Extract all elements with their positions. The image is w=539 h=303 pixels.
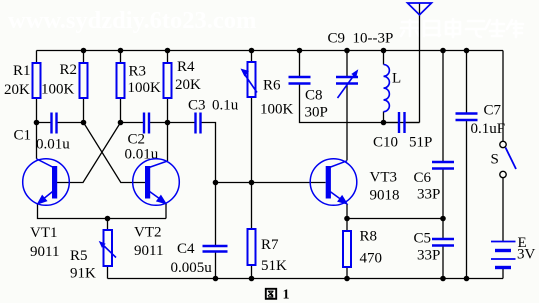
resistor R1 xyxy=(33,63,41,98)
capacitor C5 xyxy=(432,239,454,246)
wire: VT1 emitter drop and emitter rail xyxy=(38,204,167,219)
capacitor C6 xyxy=(432,162,454,169)
wire: top supply rail xyxy=(37,50,504,52)
wire: R4 drop to VT2 collector xyxy=(167,51,169,162)
svg-text:C4: C4 xyxy=(177,241,195,257)
capacitor C4 xyxy=(203,246,228,252)
wire: R7 branch xyxy=(251,183,253,279)
wire: C2 row xyxy=(121,122,168,124)
inductor L xyxy=(384,65,390,112)
svg-text:20K: 20K xyxy=(4,82,30,98)
antenna xyxy=(408,3,432,15)
junction dots top rail xyxy=(81,48,470,54)
resistor R3 xyxy=(117,63,125,98)
svg-text:91K: 91K xyxy=(70,266,96,282)
wire: node A to VT3 base xyxy=(216,182,326,184)
svg-text:100K: 100K xyxy=(41,82,75,98)
svg-text:100K: 100K xyxy=(260,102,294,118)
wire: C3 row and drop to node A xyxy=(168,123,216,183)
svg-text:0.1u: 0.1u xyxy=(212,98,239,114)
wire: C6 branch xyxy=(442,51,444,219)
wire: switch-battery branch xyxy=(502,51,504,279)
wire: VT2 emitter drop xyxy=(165,203,167,219)
resistor R4 xyxy=(164,63,172,98)
svg-text:1: 1 xyxy=(283,288,290,303)
watermark CJK 实用电子制作 xyxy=(401,19,523,37)
variable capacitor C9 xyxy=(336,69,358,98)
svg-text:C6: C6 xyxy=(414,170,432,186)
resistor R8 xyxy=(343,231,351,267)
svg-text:9011: 9011 xyxy=(134,243,163,259)
svg-text:www.sydzdiy.6to23.com: www.sydzdiy.6to23.com xyxy=(8,7,256,34)
svg-text:33P: 33P xyxy=(417,187,440,203)
svg-text:0.005u: 0.005u xyxy=(171,260,213,276)
wire: L leads xyxy=(383,51,385,123)
wire: R5 branch xyxy=(107,219,109,279)
svg-text:0.1uF: 0.1uF xyxy=(471,121,506,137)
svg-text:0.01u: 0.01u xyxy=(36,137,70,153)
svg-text:VT2: VT2 xyxy=(134,225,162,241)
svg-text:C3: C3 xyxy=(188,98,206,114)
junction dot L bottom xyxy=(381,120,387,126)
svg-text:9018: 9018 xyxy=(370,188,400,204)
svg-text:C10: C10 xyxy=(373,135,398,151)
transistor VT2 xyxy=(133,159,180,206)
svg-text:100K: 100K xyxy=(128,80,162,96)
resistor R7 xyxy=(248,229,256,265)
svg-text:R2: R2 xyxy=(60,62,78,78)
svg-text:C1: C1 xyxy=(14,128,32,144)
wire: antenna feed line xyxy=(419,3,421,123)
capacitor C7 xyxy=(456,114,478,121)
junction dots bottom rail xyxy=(213,276,470,282)
svg-text:C8: C8 xyxy=(305,88,323,104)
resistor R2 xyxy=(80,63,88,98)
svg-text:51K: 51K xyxy=(261,258,287,274)
wire: R8 branch xyxy=(346,219,348,279)
wire: C10 row xyxy=(384,122,420,124)
wire: C9 / VT3 collector line xyxy=(346,51,348,161)
wire: R6 branch xyxy=(251,51,253,183)
svg-text:VT1: VT1 xyxy=(30,225,58,241)
wire: left edge (R1 branch) xyxy=(36,51,38,159)
svg-text:51P: 51P xyxy=(409,135,432,151)
variable resistor R6 xyxy=(241,62,258,97)
wire: R3 drop to C2 node xyxy=(120,51,122,123)
capacitor C10 xyxy=(399,112,405,133)
capacitor C1 xyxy=(52,113,57,134)
wire: C8 branch and tank bottom xyxy=(300,51,420,123)
wire: R2 drop to C1 node xyxy=(83,51,85,123)
capacitor C3 xyxy=(196,113,201,134)
svg-text:33P: 33P xyxy=(417,248,440,264)
wire: C7 branch xyxy=(466,51,468,279)
capacitor C8 xyxy=(289,77,311,84)
svg-text:R6: R6 xyxy=(263,78,281,94)
wire: VT3 emitter drop and rail to C5/C6 xyxy=(347,204,443,219)
battery E xyxy=(491,242,516,268)
svg-text:470: 470 xyxy=(360,251,383,267)
transistor VT1 xyxy=(23,159,70,206)
svg-text:0.01u: 0.01u xyxy=(125,147,159,163)
wire: C4 branch xyxy=(215,183,217,279)
caption 图 1 xyxy=(266,288,290,303)
svg-text:R1: R1 xyxy=(13,63,31,79)
junction dots emitter rails xyxy=(105,216,111,222)
svg-text:VT3: VT3 xyxy=(370,170,398,186)
wire: cross-coupling C2 node to VT1 base xyxy=(57,123,121,183)
svg-text:L: L xyxy=(392,71,401,87)
svg-text:R3: R3 xyxy=(129,64,147,80)
svg-text:S: S xyxy=(491,152,499,168)
junction dots C-row xyxy=(34,120,171,126)
junction dots mid row xyxy=(213,180,219,186)
switch S xyxy=(500,141,516,177)
svg-text:20K: 20K xyxy=(175,77,201,93)
svg-text:C5: C5 xyxy=(414,231,432,247)
wire: cross-coupling C1 node to VT2 base xyxy=(84,123,146,183)
wire: C5 branch xyxy=(442,219,444,279)
svg-text:3V: 3V xyxy=(517,247,536,263)
svg-text:R8: R8 xyxy=(360,229,378,245)
capacitor C2 xyxy=(144,113,149,134)
svg-text:30P: 30P xyxy=(305,105,328,121)
svg-text:C2: C2 xyxy=(128,132,146,148)
wire: C1 row xyxy=(37,122,84,124)
svg-text:C9: C9 xyxy=(328,31,346,47)
svg-text:C7: C7 xyxy=(484,103,502,119)
variable resistor R5 xyxy=(99,230,116,266)
svg-text:10--3P: 10--3P xyxy=(353,31,394,47)
svg-text:R4: R4 xyxy=(177,59,195,75)
svg-text:R7: R7 xyxy=(261,237,279,253)
svg-text:R5: R5 xyxy=(70,248,88,264)
transistor VT3 xyxy=(310,159,357,206)
svg-text:9011: 9011 xyxy=(30,244,59,260)
wire: bottom ground rail xyxy=(108,278,504,280)
